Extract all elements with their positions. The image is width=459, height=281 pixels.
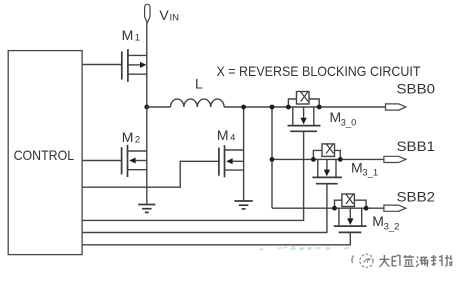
- svg-text:M: M: [372, 213, 384, 229]
- SBB2 output terminal: [384, 205, 406, 211]
- svg-text:X: X: [300, 88, 310, 104]
- VIN terminal: [145, 4, 150, 23]
- transistor M2: [122, 145, 147, 177]
- inductor L: [171, 99, 225, 107]
- label VIN: [159, 7, 179, 24]
- svg-text:X: X: [345, 191, 355, 207]
- wire M4 drain to node A rail: [243, 107, 245, 201]
- SBB1 output terminal: [384, 156, 406, 162]
- SBB0 output terminal: [386, 104, 406, 110]
- junction M4 drain: [241, 105, 246, 110]
- svg-text:2: 2: [135, 134, 140, 145]
- svg-text:M: M: [330, 109, 342, 125]
- wire M1 source down through M2 to ground: [146, 107, 148, 205]
- node A junction: [144, 105, 149, 110]
- wire node A to inductor: [147, 106, 171, 108]
- 科: [431, 255, 442, 266]
- svg-text:1: 1: [135, 33, 140, 44]
- vertical bus from node A to SBB branches: [271, 107, 273, 208]
- svg-text:3_1: 3_1: [362, 168, 378, 179]
- ground for M2: [138, 205, 155, 213]
- wire CONTROL to M4 gate (jog): [82, 161, 219, 187]
- control block U1: [8, 51, 82, 255]
- ground for M4: [234, 201, 252, 209]
- label M4: [217, 127, 235, 144]
- watermark green text: [260, 247, 350, 251]
- svg-text:CONTROL: CONTROL: [14, 147, 75, 163]
- junction bus M3_1: [270, 157, 275, 162]
- wire M3_0 gate to control bus 1: [82, 131, 304, 220]
- svg-text:4: 4: [230, 132, 235, 143]
- svg-text:L: L: [195, 76, 203, 92]
- svg-text:3_2: 3_2: [384, 221, 400, 232]
- svg-text:SBB1: SBB1: [397, 138, 436, 154]
- transistor M4: [219, 145, 244, 177]
- svg-text:V: V: [159, 7, 169, 23]
- junction bus top: [270, 105, 275, 110]
- svg-text:M: M: [351, 159, 363, 175]
- 蓝: [404, 255, 414, 266]
- wire CONTROL to M1 gate: [82, 64, 122, 66]
- wire bus corner to M3_2 branch: [272, 207, 384, 209]
- wire inductor to SBB0 terminal: [224, 106, 385, 108]
- watermark text (CJK strokes): [379, 255, 452, 267]
- 技: [445, 255, 452, 266]
- watermark logo: [352, 254, 373, 267]
- svg-text:M: M: [122, 27, 134, 43]
- reverse blocking circuit X (M3_2): [335, 191, 367, 208]
- transistor M3_1: [311, 157, 343, 184]
- svg-text:M: M: [217, 127, 229, 143]
- 大: [379, 255, 389, 267]
- svg-text:IN: IN: [170, 13, 180, 24]
- svg-text:3_0: 3_0: [341, 117, 357, 128]
- label M2: [122, 129, 140, 145]
- wire bus to M3_1 branch: [272, 158, 384, 160]
- transistor M1: [122, 49, 147, 82]
- svg-text:X: X: [325, 141, 335, 157]
- label M3_1: [351, 159, 378, 178]
- reverse blocking circuit X (M3_1): [313, 141, 340, 160]
- label M3_0: [330, 109, 357, 128]
- 印: [392, 255, 400, 266]
- wire M3_2 gate to control bus 3: [82, 232, 350, 244]
- svg-text:SBB0: SBB0: [397, 80, 436, 96]
- transistor M3_2: [332, 206, 368, 233]
- 海: [416, 257, 428, 267]
- wire CONTROL to M2 gate: [82, 160, 122, 162]
- reverse blocking circuit X (M3_0): [288, 88, 319, 107]
- label M3_2: [372, 213, 399, 232]
- wire M3_1 gate to control bus 2: [82, 184, 327, 233]
- svg-text:M: M: [122, 129, 134, 145]
- transistor M3_0: [286, 105, 322, 132]
- wire VIN to node A: [146, 23, 148, 107]
- svg-text:SBB2: SBB2: [397, 188, 436, 204]
- label M1: [122, 27, 140, 44]
- svg-text:X = REVERSE BLOCKING CIRCUIT: X = REVERSE BLOCKING CIRCUIT: [217, 63, 421, 79]
